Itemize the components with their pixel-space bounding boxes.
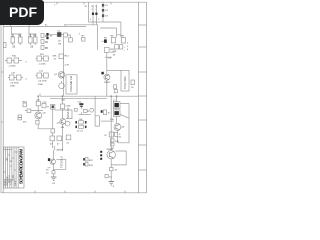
connector J1 pin1 — [46, 33, 48, 36]
svg-text:B+: B+ — [45, 24, 48, 26]
wire driver spine — [106, 53, 108, 97]
title block frame — [4, 147, 25, 188]
connector J1 pin2 — [46, 37, 48, 40]
resistor R23b — [75, 108, 78, 111]
svg-text:7: 7 — [54, 5, 56, 7]
svg-text:4.7K: 4.7K — [110, 52, 115, 54]
feedback loop out2 — [111, 151, 126, 165]
resistor R12 — [16, 75, 21, 80]
svg-text:.02: .02 — [52, 183, 56, 185]
wire main vertical — [63, 37, 65, 96]
sheet inner border right — [138, 2, 140, 193]
zone tick left 1 — [1, 71, 3, 73]
terminal K2 — [83, 163, 85, 165]
wire out2 spine — [110, 96, 112, 181]
wire ch1 row — [25, 110, 43, 112]
capacitor C7 — [120, 45, 123, 49]
fuse F1 on left border — [3, 43, 6, 48]
transistor Q4 — [60, 119, 66, 125]
terminal c — [100, 158, 102, 160]
resistor R20 below Q3 — [36, 120, 39, 124]
resistor R22 left — [51, 104, 55, 109]
title block divider 3 — [9, 147, 11, 188]
svg-text:1M: 1M — [58, 44, 61, 46]
svg-text:47: 47 — [57, 144, 60, 146]
svg-text:.02 .02: .02 .02 — [77, 130, 84, 132]
svg-text:250K: 250K — [38, 84, 44, 86]
zone tick top 2 — [83, 2, 85, 5]
svg-text:R33: R33 — [89, 165, 94, 167]
relay RY1 — [104, 39, 107, 43]
svg-text:10K: 10K — [115, 141, 119, 143]
resistor R30 — [111, 139, 115, 142]
junction dots on lower bus — [37, 95, 117, 97]
svg-text:.1 220K: .1 220K — [8, 65, 16, 67]
svg-text:68K: 68K — [53, 56, 57, 58]
capacitor C2 — [29, 37, 33, 43]
svg-text:470: 470 — [23, 122, 27, 124]
wire group A2 — [36, 58, 50, 60]
wire bus B+ — [3, 26, 86, 28]
transistor Q1 — [58, 72, 65, 79]
svg-text:22: 22 — [46, 173, 49, 175]
zone tick right 5 — [139, 119, 147, 121]
title block cell line c — [10, 165, 12, 167]
feedback loop out1 — [53, 159, 65, 169]
wire ch2b row — [79, 114, 91, 116]
resistor R27 — [57, 136, 62, 141]
wire ch2 left leg — [52, 109, 54, 148]
resistor R5 — [41, 46, 44, 50]
loop rect ch2b — [95, 116, 99, 126]
svg-text:C12: C12 — [42, 102, 47, 104]
resistor R9 — [121, 38, 125, 44]
transformer T2 core — [114, 111, 119, 115]
zone tick bottom 1 — [34, 191, 36, 193]
svg-text:R32: R32 — [89, 160, 94, 162]
svg-text:IN: IN — [50, 36, 53, 38]
title block cell line f — [4, 171, 6, 173]
capacitor C14 bar2 — [80, 106, 83, 107]
resistor R7b — [82, 37, 85, 41]
node bus-ch1 — [37, 95, 39, 97]
svg-text:2: 2 — [127, 43, 129, 45]
svg-text:B: B — [108, 113, 110, 115]
svg-text:1K: 1K — [46, 170, 49, 172]
terminal TB1 — [101, 72, 103, 75]
zone tick top 3 — [110, 2, 112, 5]
transistor Q6 — [114, 124, 121, 131]
svg-text:.5: .5 — [25, 62, 28, 64]
svg-text:.5: .5 — [119, 134, 122, 136]
wire ch2b right spine — [94, 96, 96, 116]
sheet top border — [1, 1, 147, 3]
resistor R33 — [85, 163, 88, 167]
ground GND2 — [109, 181, 115, 185]
resistor R7 — [69, 38, 73, 42]
transformer T1 core — [114, 103, 119, 107]
composite row 2 box — [79, 125, 84, 128]
title block divider 5 — [13, 147, 15, 188]
svg-text:Q3: Q3 — [43, 113, 47, 115]
bus lower 2 — [50, 98, 107, 100]
title block header row 1 — [4, 149, 12, 151]
capacitor C14 bar — [79, 103, 83, 105]
svg-text:C14: C14 — [78, 101, 83, 103]
svg-text:8: 8 — [113, 186, 115, 188]
svg-text:100: 100 — [61, 127, 65, 129]
svg-text:.47: .47 — [114, 170, 118, 172]
wire ch2b vertical — [80, 105, 82, 115]
resistor R9b — [115, 45, 119, 49]
diode D1 — [102, 4, 104, 7]
svg-text:D2: D2 — [105, 10, 109, 12]
wire group B2 — [36, 75, 50, 77]
transistor Q5 — [90, 108, 94, 112]
capacitor C9 — [37, 56, 42, 61]
sheet outer border right — [146, 2, 148, 193]
wire ch2 left link — [55, 109, 63, 111]
svg-text:D3: D3 — [105, 16, 109, 18]
title block divider 1 — [5, 147, 7, 188]
svg-text:C10: C10 — [11, 73, 16, 75]
svg-text:10: 10 — [6, 158, 8, 160]
wire ch3 row — [101, 120, 114, 122]
bus lower 1 — [40, 95, 139, 97]
feedback loop ch2 — [62, 110, 72, 119]
resistor R16b right of pot — [131, 80, 135, 85]
zone tick bottom 4 — [124, 191, 126, 193]
title block cell line b — [8, 154, 10, 156]
wire ch3 feed — [116, 96, 119, 143]
svg-text:TONE 500K: TONE 500K — [124, 76, 127, 89]
svg-text:+: + — [124, 50, 126, 52]
svg-text:A1: A1 — [10, 160, 13, 162]
svg-text:.02: .02 — [108, 58, 112, 60]
svg-text:.5: .5 — [25, 79, 28, 81]
transformer T2 — [113, 110, 120, 117]
wire R2 drop — [29, 27, 37, 46]
transistor Q2 — [104, 74, 110, 80]
title block cell line d — [12, 157, 14, 159]
svg-text:R14: R14 — [65, 56, 70, 58]
svg-text:D1: D1 — [105, 5, 109, 7]
svg-text:R10: R10 — [12, 56, 17, 58]
ch3 lower parts — [111, 139, 115, 146]
svg-text:C11: C11 — [39, 71, 44, 73]
zone tick top 1 — [56, 2, 58, 5]
capacitor C1 — [11, 37, 15, 43]
svg-text:2N407: 2N407 — [104, 82, 111, 84]
right column of small parts near x=42 — [41, 34, 44, 50]
resistor R10 — [14, 58, 19, 63]
resistor R31 — [52, 171, 55, 174]
resistor R26 — [50, 136, 55, 141]
svg-text:RY: RY — [104, 38, 108, 40]
node bus-out2 — [110, 95, 112, 97]
wire blob link — [102, 40, 105, 42]
sheet bottom border — [1, 192, 147, 194]
svg-text:R: R — [47, 107, 49, 109]
svg-text:47: 47 — [104, 135, 107, 137]
title block divider 2 — [7, 147, 9, 188]
pot VR2 circle — [59, 81, 65, 89]
wire R15 link — [105, 56, 112, 58]
title block cell line a — [6, 159, 8, 161]
node bus-ch3 — [116, 95, 118, 97]
resistor R6 — [64, 33, 68, 37]
capacitor C10 — [9, 75, 14, 80]
svg-text:50: 50 — [119, 137, 122, 139]
resistor pair RP1 — [18, 115, 22, 117]
resistor R35 — [105, 175, 108, 178]
svg-text:+: + — [124, 47, 126, 49]
wire ch1 spine top — [37, 96, 39, 112]
svg-text:BASS 1M: BASS 1M — [67, 108, 70, 118]
svg-text:2: 2 — [90, 19, 92, 21]
svg-text:10: 10 — [109, 177, 112, 179]
wire jack link — [49, 34, 71, 38]
wire ch1 out — [38, 119, 53, 129]
capacitor C8 — [7, 58, 12, 63]
capacitor C17 — [66, 135, 71, 140]
svg-text:1K: 1K — [113, 54, 116, 56]
title block cell line g — [14, 151, 18, 153]
svg-text:.1 220K: .1 220K — [38, 64, 46, 66]
wire out1 feed — [48, 146, 55, 177]
resistor R17 on spine — [36, 101, 40, 106]
wire drop A — [117, 22, 121, 38]
wire rail B — [100, 27, 117, 29]
resistor R34 — [110, 168, 114, 171]
wire rail A — [89, 21, 121, 23]
svg-text:.01: .01 — [66, 143, 70, 145]
resistor R22b on left leg — [51, 129, 55, 133]
resistor R28 — [109, 132, 113, 137]
resistor R14 on spine — [59, 54, 63, 59]
resistor R32 — [85, 158, 88, 162]
wire bend top box — [39, 94, 41, 97]
zone tick right 7 — [139, 169, 147, 171]
title block divider 7 — [17, 147, 19, 188]
right mid cluster K — [85, 158, 88, 167]
svg-text:1K: 1K — [131, 87, 134, 89]
pot VR3 box — [121, 70, 129, 91]
zone tick bottom 3 — [94, 191, 96, 193]
svg-text:C15: C15 — [61, 100, 66, 102]
svg-text:250K: 250K — [10, 86, 16, 88]
transistor Q3 — [35, 112, 42, 119]
svg-text:VOLUME 1M: VOLUME 1M — [69, 75, 73, 92]
svg-text:R11: R11 — [40, 54, 45, 56]
svg-text:47K: 47K — [64, 24, 68, 26]
svg-text:.05 470K: .05 470K — [10, 82, 19, 84]
transformer T1 — [113, 102, 120, 109]
svg-text:2: 2 — [98, 19, 100, 21]
svg-text:SHEET 1: SHEET 1 — [15, 178, 17, 186]
zone tick right 3 — [139, 71, 147, 73]
svg-text:2: 2 — [127, 46, 129, 48]
wire R1 drop — [12, 27, 22, 46]
capacitor C12 — [42, 104, 46, 108]
capacitor C6 — [57, 32, 61, 37]
wire C3 — [92, 5, 94, 25]
svg-text:2N508: 2N508 — [56, 149, 63, 151]
resistor R13 — [44, 73, 49, 78]
composite row 2 blob R — [85, 126, 87, 129]
wire top drop x88.5 — [88, 2, 90, 22]
composite row 1 blob R — [85, 121, 87, 124]
svg-text:R5: R5 — [45, 48, 49, 50]
transistor Q4b — [65, 121, 70, 126]
capacitor C3 body — [92, 13, 94, 15]
capacitor C11 — [37, 73, 42, 78]
resistor R1 — [18, 37, 22, 43]
svg-text:R4: R4 — [45, 42, 49, 44]
junction tick J2a — [28, 25, 30, 27]
resistor R21 on spine — [60, 104, 64, 109]
title block divider 6 — [15, 147, 17, 188]
PDF badge — [0, 0, 44, 25]
resistor R16 — [114, 85, 117, 89]
sheet inner border left — [2, 2, 4, 193]
transistor Q7 — [50, 159, 56, 165]
wire group B1 — [8, 77, 23, 79]
capacitor C18 — [111, 143, 115, 146]
capacitor C16 — [114, 89, 117, 92]
zone tick right 1 — [139, 24, 147, 26]
svg-text:Q6: Q6 — [121, 127, 125, 129]
lamp L1 — [103, 110, 106, 115]
resistor R11 — [44, 56, 49, 61]
svg-text:22: 22 — [54, 59, 57, 61]
terminal a — [100, 151, 102, 153]
resistor R8 — [111, 38, 115, 43]
wire rail rise — [68, 25, 98, 50]
zone tick right 6 — [139, 144, 147, 146]
resistor R18 — [23, 103, 27, 107]
resistor R4 — [41, 40, 44, 44]
junction tick J1a — [10, 25, 12, 27]
svg-text:R: R — [88, 111, 90, 113]
title block divider 4 — [11, 147, 13, 188]
resistor R15 — [105, 48, 110, 53]
composite row 1 box — [79, 121, 84, 124]
node bus-ch2 — [62, 95, 64, 97]
composite row 2 blob L — [75, 126, 77, 129]
zone tick right 2 — [139, 46, 147, 48]
wire C4 — [95, 5, 97, 25]
svg-text:4.7K: 4.7K — [65, 65, 70, 67]
resistor R23 — [83, 109, 87, 112]
svg-text:TREMOLO: TREMOLO — [61, 156, 64, 168]
svg-text:Q1: Q1 — [54, 74, 58, 76]
zone tick right 4 — [139, 95, 147, 97]
svg-text:.02: .02 — [58, 40, 62, 42]
ch3 mid row parts — [109, 132, 118, 137]
core of R22 — [52, 105, 54, 108]
wire group A1 — [5, 60, 22, 62]
diode D2 — [102, 9, 104, 12]
terminal b — [100, 154, 102, 156]
svg-text:SCHEMATIC DIAGRAM: SCHEMATIC DIAGRAM — [19, 149, 24, 185]
capacitor C4 body — [95, 13, 97, 15]
resistor R29 — [115, 132, 118, 136]
svg-text:S1: S1 — [85, 6, 88, 8]
wire ch3 right link — [117, 104, 129, 143]
resistor R19 on row — [27, 109, 31, 113]
diode D3 — [102, 14, 104, 17]
svg-text:50K: 50K — [110, 119, 114, 121]
resistor R3 — [41, 34, 44, 38]
zone tick left 2 — [1, 121, 3, 123]
wire rectifier chain — [102, 2, 104, 22]
terminal TB2 — [101, 110, 103, 113]
transistor Q8 — [107, 151, 115, 159]
sheet outer border left — [0, 2, 2, 193]
terminal TB3 — [48, 158, 50, 161]
svg-text:.05: .05 — [12, 47, 16, 49]
svg-text:.05: .05 — [30, 47, 34, 49]
resistor R2 — [33, 37, 37, 43]
ground GND1 — [51, 177, 57, 181]
svg-text:4: 4 — [127, 49, 129, 51]
wire ch2 spine — [61, 96, 63, 151]
title block cell line e — [14, 169, 16, 171]
terminal K1 — [83, 158, 85, 160]
potentiometer box VR1 — [66, 75, 77, 94]
composite row 1 blob L — [75, 121, 77, 124]
wire to pot box — [107, 70, 121, 72]
zone tick bottom 2 — [64, 191, 66, 193]
svg-text:270K: 270K — [65, 106, 71, 108]
svg-text:.05 470K: .05 470K — [38, 81, 47, 83]
